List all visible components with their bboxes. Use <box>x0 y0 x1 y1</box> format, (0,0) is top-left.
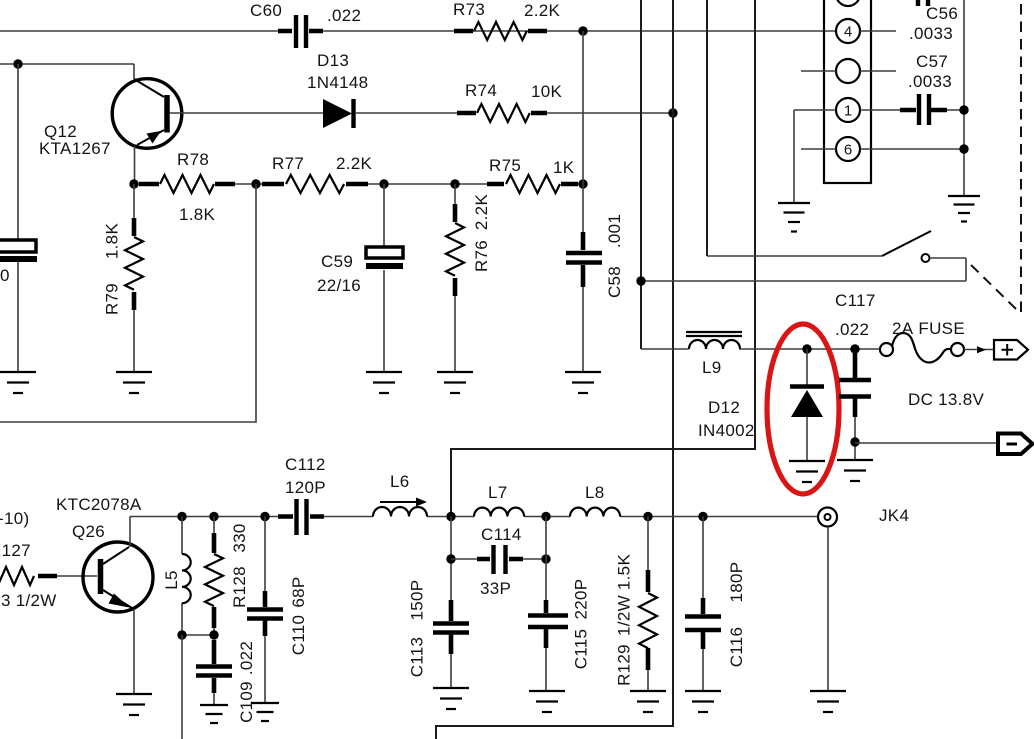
wire Q12 emitter down <box>134 146 136 184</box>
svg-text:2A FUSE: 2A FUSE <box>892 319 965 338</box>
svg-text:L8: L8 <box>585 483 605 502</box>
svg-text:C59: C59 <box>321 252 353 271</box>
svg-text:6: 6 <box>844 142 852 159</box>
svg-text:C117: C117 <box>835 291 876 310</box>
junction (583,31) <box>578 26 587 35</box>
inductor L8 <box>570 508 620 517</box>
junction (855,442) <box>850 437 859 446</box>
junction (455,184) <box>450 179 459 188</box>
wire pin1 to ground <box>793 110 795 203</box>
svg-text:1.8K: 1.8K <box>179 205 216 224</box>
junction (703,516.5) <box>698 512 707 521</box>
ground (R129) <box>630 690 666 692</box>
capacitor (electrolytic, left edge) <box>17 64 19 372</box>
wire: right vertical x=964 <box>963 0 965 196</box>
wire: long bus x=707 <box>706 0 708 256</box>
svg-text:L5: L5 <box>162 570 181 590</box>
connector pin 4 <box>836 19 860 43</box>
jack JK4 <box>818 508 837 527</box>
capacitor C116 180P <box>702 517 704 692</box>
junction (256,184) <box>251 179 260 188</box>
ground (C117) <box>837 459 873 461</box>
junction (182,635) <box>177 630 186 639</box>
junction (964,149) <box>959 144 968 153</box>
inductor L5 <box>181 517 183 636</box>
junction (648,516.5) <box>643 512 652 521</box>
svg-text:1.5K: 1.5K <box>615 554 634 591</box>
wire: long bus x=755 down to L6/L7 node <box>451 0 755 517</box>
svg-text:D12: D12 <box>708 398 740 417</box>
svg-text:.001: .001 <box>605 214 624 248</box>
svg-text:C110: C110 <box>289 615 308 656</box>
dashed vertical border <box>1020 4 1022 312</box>
svg-text:120P: 120P <box>285 478 326 497</box>
svg-text:L9: L9 <box>702 358 722 377</box>
wire fuse to plus tag <box>964 349 994 351</box>
junction (451,559) <box>446 554 455 563</box>
ground (left cap) <box>0 371 36 373</box>
wire y=64 to Q12 collector <box>0 64 134 79</box>
svg-text:330: 330 <box>230 523 249 552</box>
ground (D12) <box>789 460 825 462</box>
wire R74 to bus <box>547 112 673 114</box>
svg-text:R128: R128 <box>230 566 249 608</box>
svg-text:Q26: Q26 <box>72 522 105 541</box>
svg-text:C57: C57 <box>916 52 948 71</box>
capacitor C114 33P <box>451 558 546 560</box>
svg-text:C116: C116 <box>727 627 746 668</box>
connector pin (blank) <box>836 59 860 83</box>
svg-text:0: 0 <box>0 266 10 285</box>
wire: long bus x=641 <box>640 0 642 349</box>
transistor Q12 <box>112 79 182 149</box>
junction (583,184) <box>578 179 587 188</box>
svg-text:C60: C60 <box>250 1 282 20</box>
svg-text:R73: R73 <box>453 0 485 19</box>
svg-text:.022: .022 <box>327 6 361 25</box>
resistor R129 1/2W 1.5K <box>647 517 649 692</box>
junction (214,635) <box>209 630 218 639</box>
svg-text:33P: 33P <box>480 579 511 598</box>
inductor L6 <box>373 507 427 517</box>
capacitor C59 22/16 <box>383 184 385 372</box>
junction (673,113) <box>668 108 677 117</box>
resistor R75 <box>487 175 578 193</box>
connector pin 6 <box>836 137 860 161</box>
svg-text:KTA1267: KTA1267 <box>39 139 111 158</box>
ground (JK4) <box>810 690 846 692</box>
svg-text:1N4148: 1N4148 <box>307 73 368 92</box>
svg-text:3 1/2W: 3 1/2W <box>1 591 57 610</box>
svg-text:R77: R77 <box>272 154 304 173</box>
svg-text:R76: R76 <box>472 240 491 272</box>
wire L5 node exits bottom <box>181 635 183 739</box>
input resistor (cut at left edge) <box>0 567 34 585</box>
junction (546,559) <box>541 554 550 563</box>
ground (C109) <box>200 704 228 706</box>
wire Q12 base to D13 <box>170 112 324 114</box>
svg-text:KTC2078A: KTC2078A <box>56 495 142 514</box>
svg-text:D13: D13 <box>317 51 349 70</box>
capacitor C117 <box>854 417 856 460</box>
svg-text:1: 1 <box>844 103 852 120</box>
junction (855,349) <box>850 344 859 353</box>
svg-text:1K: 1K <box>553 158 575 177</box>
svg-text:JK4: JK4 <box>879 506 909 525</box>
connector block <box>824 0 871 183</box>
ground (C113) <box>433 687 469 689</box>
ground (pin1) <box>778 202 810 204</box>
svg-text:R79: R79 <box>103 283 122 315</box>
transistor Q26 <box>83 542 153 612</box>
svg-text:C115: C115 <box>572 629 591 670</box>
svg-text:R75: R75 <box>489 156 521 175</box>
wire R78 node down-left to edge <box>0 184 256 422</box>
svg-text:L6: L6 <box>390 472 410 491</box>
svg-text:.0033: .0033 <box>908 72 952 91</box>
capacitor C110 68P <box>264 517 266 704</box>
svg-text:22/16: 22/16 <box>317 276 361 295</box>
svg-text:2.2K: 2.2K <box>336 154 373 173</box>
svg-text:L7: L7 <box>488 483 508 502</box>
svg-text:C56: C56 <box>926 4 958 23</box>
capacitor C115 220P <box>545 517 547 692</box>
svg-text:C114: C114 <box>481 525 522 544</box>
svg-text:R74: R74 <box>465 81 497 100</box>
capacitor C112 120P <box>278 499 324 535</box>
wire stubs at connector <box>794 31 964 149</box>
wire to minus tag <box>855 442 998 444</box>
svg-text:R127: R127 <box>0 541 31 560</box>
junction (641,281) <box>636 276 645 285</box>
ground (C116) <box>685 690 721 692</box>
wire Q26 emitter to ground <box>133 609 135 694</box>
svg-text:2.2K: 2.2K <box>524 1 561 20</box>
svg-text:IN4002: IN4002 <box>698 421 755 440</box>
svg-text:4: 4 <box>844 24 852 41</box>
resistor R78 <box>139 175 235 193</box>
svg-text:68P: 68P <box>289 576 308 607</box>
resistor R77 <box>262 175 368 193</box>
wire D13 to R74 <box>355 112 457 114</box>
junction (964,110) <box>959 105 968 114</box>
terminal - <box>998 434 1033 455</box>
svg-text:10K: 10K <box>531 82 563 101</box>
svg-text:-10): -10) <box>0 509 29 528</box>
svg-text:.022: .022 <box>835 320 869 339</box>
red highlight ellipse <box>767 324 839 494</box>
capacitor C113 150P <box>450 517 452 689</box>
dashed link <box>971 265 1016 309</box>
junction (134,184) <box>129 179 138 188</box>
junction (182,516.5) <box>177 512 186 521</box>
resistor R79 <box>133 184 135 372</box>
svg-text:C113: C113 <box>408 637 427 678</box>
capacitor C60 <box>278 15 323 48</box>
wire: R78 row y=184 <box>134 183 583 185</box>
junction (265,516.5) <box>260 512 269 521</box>
svg-text:150P: 150P <box>408 580 427 621</box>
terminal + <box>994 340 1028 360</box>
junction (451,516.5) <box>446 512 455 521</box>
svg-text:R129: R129 <box>615 644 634 686</box>
ground (C57) <box>948 195 980 197</box>
svg-text:180P: 180P <box>727 562 746 603</box>
inductor L9 <box>689 340 740 349</box>
wire: long bus x=673 <box>436 0 673 739</box>
capacitor C57 <box>860 109 964 111</box>
ground (C110) <box>251 702 279 704</box>
connector pin (top, cut) <box>836 0 860 6</box>
junction (546,516.5) <box>541 512 550 521</box>
svg-text:.0033: .0033 <box>909 24 953 43</box>
capacitor C58 .001 <box>582 31 584 372</box>
arrow (L6) <box>380 498 427 507</box>
diode D12 IN4002 <box>806 349 808 461</box>
wire switch return y=281 <box>641 280 966 282</box>
capacitor C109 .022 <box>213 693 215 705</box>
svg-text:R78: R78 <box>177 150 209 169</box>
capacitor C56 (partially cut at top) <box>918 0 928 6</box>
svg-text:C112: C112 <box>285 455 326 474</box>
ground (Q26) <box>116 693 152 695</box>
fuse 2A <box>880 343 893 356</box>
resistor R73 <box>454 22 547 40</box>
svg-text:DC 13.8V: DC 13.8V <box>908 390 984 409</box>
svg-text:C58: C58 <box>605 266 624 298</box>
wire: main line y=516.5 <box>130 516 818 518</box>
resistor R74 <box>457 104 547 122</box>
connector pin 1 <box>836 98 860 122</box>
junction (214,516.5) <box>209 512 218 521</box>
junction (384,184) <box>379 179 388 188</box>
ground (C115) <box>529 690 565 692</box>
diode D13 1N4148 <box>323 99 354 128</box>
switch <box>707 255 882 257</box>
wire Q26 collector up <box>129 517 131 548</box>
wire L5/R128 bottom node <box>182 634 214 636</box>
resistor R76 <box>454 184 456 372</box>
svg-text:1.8K: 1.8K <box>103 223 122 260</box>
wire JK4 to ground <box>827 527 829 692</box>
svg-text:1/2W: 1/2W <box>615 595 634 636</box>
junction (18,64) <box>13 59 22 68</box>
resistor R128 330 <box>213 517 215 636</box>
svg-text:220P: 220P <box>572 579 591 620</box>
svg-text:.022: .022 <box>237 641 256 675</box>
junction (807,349) <box>802 344 811 353</box>
wire: top feedback line y=31 <box>0 30 836 32</box>
svg-text:2.2K: 2.2K <box>472 194 491 231</box>
inductor L7 <box>474 508 524 517</box>
